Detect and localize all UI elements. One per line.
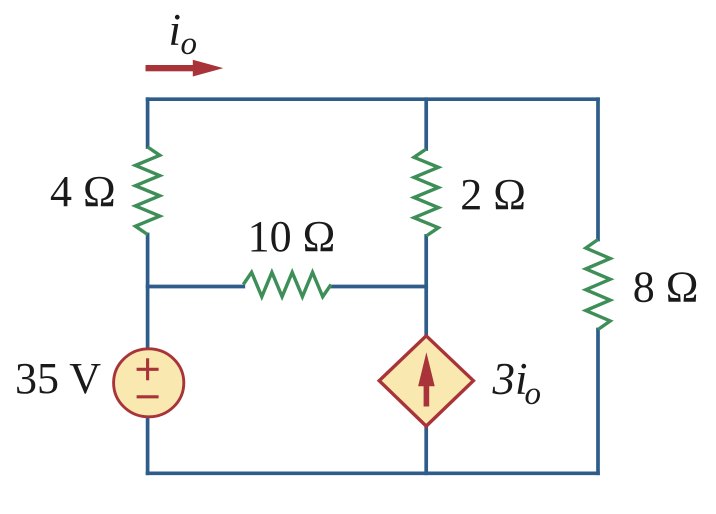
- svg-text:i: i: [169, 5, 182, 55]
- svg-text:8 Ω: 8 Ω: [633, 263, 699, 312]
- svg-text:35 V: 35 V: [15, 354, 101, 403]
- svg-text:o: o: [525, 376, 542, 412]
- svg-text:2 Ω: 2 Ω: [460, 170, 526, 219]
- svg-text:3i: 3i: [492, 354, 528, 404]
- svg-text:o: o: [181, 26, 198, 62]
- svg-text:10 Ω: 10 Ω: [248, 212, 336, 261]
- svg-text:4 Ω: 4 Ω: [50, 167, 116, 216]
